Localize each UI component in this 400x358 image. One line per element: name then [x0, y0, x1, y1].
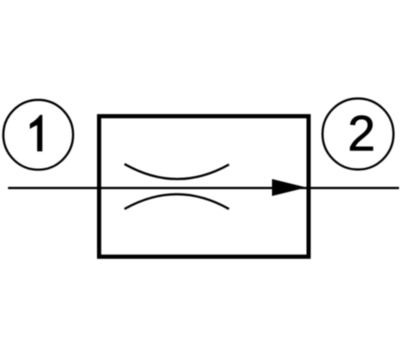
- venturi upper curve: [125, 164, 230, 179]
- port 1 label "1": [30, 115, 42, 151]
- port 1 circle: [3, 100, 73, 170]
- wire: flow line from port 1 to port 2: [8, 187, 399, 189]
- venturi lower curve: [125, 194, 230, 209]
- port 2 circle: [323, 99, 394, 170]
- valve body rectangle: [99, 116, 309, 257]
- svg-text:2: 2: [348, 106, 376, 162]
- flow direction arrow: [272, 179, 307, 196]
